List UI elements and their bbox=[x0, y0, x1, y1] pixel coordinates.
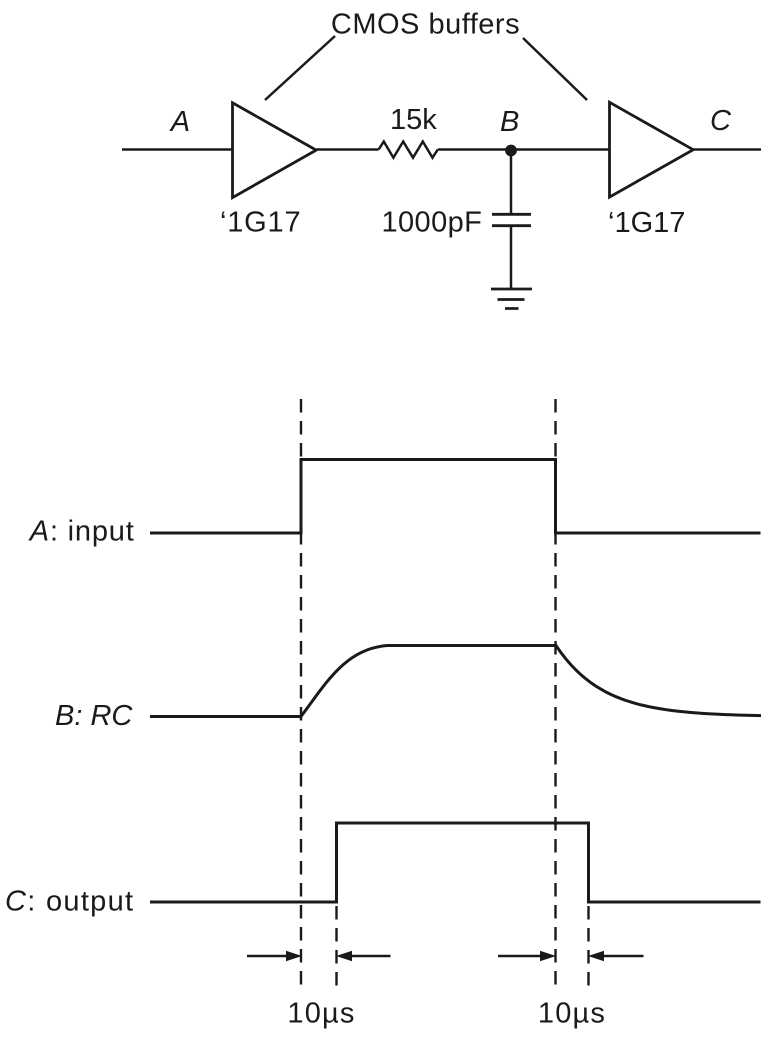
dashed timing line at input falling edge bbox=[554, 399, 556, 989]
ground bbox=[491, 289, 532, 309]
wire capacitor to ground bbox=[510, 226, 513, 289]
svg-text:1000pF: 1000pF bbox=[382, 207, 483, 239]
svg-text:A: A bbox=[169, 106, 190, 138]
waveform B RC bbox=[150, 646, 761, 717]
capacitor C1 top plate bbox=[492, 213, 531, 216]
svg-text:‘1G17: ‘1G17 bbox=[608, 207, 685, 239]
svg-text:C: output: C: output bbox=[5, 886, 134, 918]
svg-text:C: C bbox=[710, 105, 732, 137]
node B junction dot bbox=[505, 145, 517, 157]
leader line to buffer U1 bbox=[265, 36, 335, 100]
waveform C output bbox=[150, 823, 761, 902]
svg-text:10µs: 10µs bbox=[287, 998, 355, 1030]
arrow right pair pointing right bbox=[498, 955, 540, 958]
waveform A input bbox=[150, 460, 761, 534]
svg-text:15k: 15k bbox=[390, 104, 437, 136]
svg-text:CMOS buffers: CMOS buffers bbox=[331, 9, 520, 41]
svg-text:B: RC: B: RC bbox=[55, 700, 133, 732]
buffer U1 '1G17 bbox=[233, 103, 317, 198]
wire node B to capacitor bbox=[510, 151, 513, 215]
wire output C bbox=[693, 148, 761, 151]
arrow left pair pointing left bbox=[351, 955, 391, 958]
svg-text:B: B bbox=[500, 106, 519, 138]
arrow right pair pointing left bbox=[604, 955, 644, 958]
buffer U2 '1G17 bbox=[610, 102, 694, 197]
dashed timing line at input rising edge bbox=[300, 399, 302, 989]
resistor R1 bbox=[379, 142, 438, 158]
svg-text:‘1G17: ‘1G17 bbox=[220, 207, 301, 239]
svg-text:10µs: 10µs bbox=[538, 998, 606, 1030]
svg-text:A: input: A: input bbox=[28, 516, 135, 548]
capacitor C1 bottom plate bbox=[492, 224, 531, 227]
arrow left pair pointing right bbox=[247, 955, 287, 958]
wire U1 output to resistor bbox=[316, 148, 378, 151]
wire input A bbox=[122, 148, 233, 151]
wire resistor to node B and buffer U2 bbox=[438, 148, 610, 151]
leader line to buffer U2 bbox=[523, 38, 587, 100]
dashed timing line at output falling edge bbox=[587, 906, 589, 989]
dashed timing line at output rising edge bbox=[335, 906, 337, 989]
